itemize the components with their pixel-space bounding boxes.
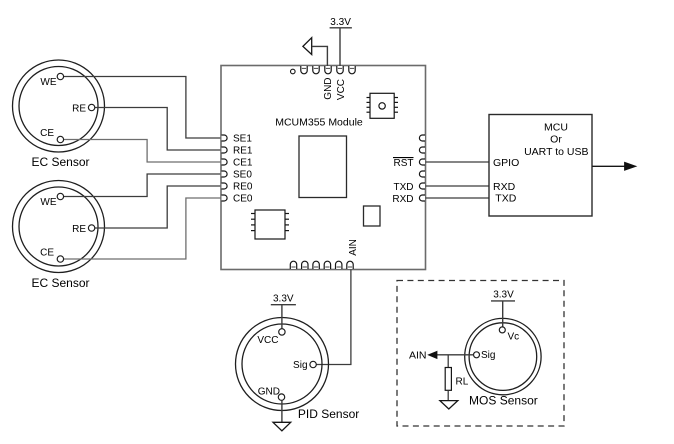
pin SE1 — [222, 135, 228, 141]
svg-text:EC Sensor: EC Sensor — [31, 155, 89, 169]
wire PID GND to ground — [281, 400, 283, 422]
svg-text:RE: RE — [72, 224, 86, 235]
PID sensor body — [236, 318, 329, 411]
svg-text:CE: CE — [40, 248, 54, 259]
bottom header pin 4 — [324, 261, 330, 269]
top header pin GND — [325, 66, 331, 74]
bottom header pin 2 — [302, 261, 308, 269]
svg-text:RXD: RXD — [392, 194, 413, 205]
wire MCU output — [592, 165, 626, 167]
arrow AIN — [429, 351, 437, 358]
top header pin 5 — [349, 66, 355, 74]
EC2 pin CE — [57, 256, 63, 262]
svg-text:Vc: Vc — [508, 332, 520, 343]
top header pin 1 — [301, 66, 307, 74]
pin-1 indicator dot — [291, 69, 296, 74]
IC chip with dot (top right) — [367, 93, 399, 118]
module MCUM355 outline — [221, 66, 426, 270]
pin RE0 — [222, 183, 228, 189]
MOS sensor body — [465, 318, 541, 394]
svg-text:CE0: CE0 — [233, 194, 253, 205]
pin right 2 arc — [419, 147, 425, 153]
wire TXD to RXD — [426, 185, 490, 187]
wire 3.3V to PID VCC — [281, 305, 283, 329]
MCU block — [489, 115, 592, 217]
3.3V rail bar MOS — [491, 300, 515, 302]
wire EC2 RE to RE0 — [95, 186, 224, 228]
wire AIN to PID Sig — [316, 270, 351, 365]
pin TXD arc — [419, 183, 425, 189]
bottom header pin 5 — [336, 261, 342, 269]
svg-text:VCC: VCC — [336, 79, 347, 100]
wire EC1 CE to CE1 — [64, 140, 224, 163]
ground flag arrow — [303, 38, 312, 55]
svg-text:RE: RE — [72, 103, 86, 114]
wire RXD to TXD — [426, 197, 490, 199]
IC chip bottom left — [251, 210, 289, 239]
pin CE1 — [222, 159, 228, 165]
EC sensor 1 body — [13, 60, 105, 152]
svg-text:AIN: AIN — [409, 350, 427, 362]
svg-text:CE: CE — [40, 128, 54, 139]
PID pin GND — [278, 394, 284, 400]
wire GND pin to power flag — [312, 46, 327, 66]
svg-text:WE: WE — [40, 197, 56, 208]
PID pin Sig — [310, 361, 316, 367]
PID pin VCC — [279, 329, 285, 335]
svg-text:Sig: Sig — [481, 350, 495, 361]
3.3V rail bar top — [330, 27, 352, 29]
EC1 pin WE — [57, 73, 63, 79]
svg-text:RXD: RXD — [493, 181, 516, 193]
wire EC2 CE to CE0 — [64, 198, 224, 259]
EC2 pin WE — [57, 193, 63, 199]
svg-text:WE: WE — [40, 77, 56, 88]
RST overline — [393, 157, 414, 159]
svg-text:MOS Sensor: MOS Sensor — [469, 393, 538, 407]
ground symbol MOS — [440, 401, 458, 409]
bottom header pin 3 — [313, 261, 319, 269]
svg-text:3.3V: 3.3V — [330, 17, 351, 28]
pin SE0 — [222, 171, 228, 177]
small component rectangle — [364, 206, 381, 226]
svg-text:Or: Or — [550, 134, 562, 146]
pin RE1 — [222, 147, 228, 153]
MOS pin Vc — [499, 327, 505, 333]
EC1 pin CE — [57, 136, 63, 142]
pin right 4 arc — [419, 171, 425, 177]
svg-text:EC Sensor: EC Sensor — [31, 276, 89, 290]
bottom header pin 1 — [290, 261, 296, 269]
svg-text:GND: GND — [323, 77, 334, 99]
dashed enclosure MOS — [397, 281, 564, 427]
svg-text:UART to USB: UART to USB — [524, 146, 588, 158]
wire Sig branch to RL — [447, 355, 449, 368]
EC sensor 2 body — [13, 181, 105, 273]
svg-text:SE0: SE0 — [233, 170, 252, 181]
bottom header pin AIN — [347, 261, 353, 269]
top header pin 2 — [313, 66, 319, 74]
MOS pin Sig — [474, 352, 480, 358]
svg-text:Sig: Sig — [293, 360, 307, 371]
EC2 pin RE — [88, 225, 94, 231]
wire RL to ground — [447, 390, 449, 400]
ground symbol PID — [273, 422, 291, 431]
svg-text:RL: RL — [456, 376, 469, 387]
svg-text:3.3V: 3.3V — [273, 294, 294, 305]
arrow MCU output — [625, 162, 636, 170]
wire Sig to AIN arrow — [437, 354, 474, 356]
svg-text:TXD: TXD — [495, 192, 516, 204]
svg-text:GPIO: GPIO — [493, 157, 519, 169]
svg-text:PID Sensor: PID Sensor — [298, 407, 359, 421]
main chip rectangle — [299, 136, 347, 198]
pin RST arc — [419, 159, 425, 165]
EC1 pin RE — [88, 104, 94, 110]
top header pin VCC — [337, 66, 343, 74]
svg-text:GND: GND — [258, 387, 280, 398]
pin right 1 arc — [419, 135, 425, 141]
svg-text:AIN: AIN — [348, 239, 359, 256]
wire 3.3V to Vc — [502, 301, 504, 327]
svg-text:MCU: MCU — [544, 121, 568, 133]
wire EC1 WE to SE1 — [64, 77, 224, 139]
svg-text:TXD: TXD — [394, 182, 414, 193]
wire EC1 RE to RE1 — [95, 108, 224, 151]
svg-text:VCC: VCC — [257, 335, 278, 346]
wire RST to GPIO — [426, 161, 490, 163]
3.3V rail bar PID — [271, 304, 296, 306]
svg-text:CE1: CE1 — [233, 158, 253, 169]
pin RXD arc — [419, 195, 425, 201]
svg-text:RE1: RE1 — [233, 146, 253, 157]
wire EC2 WE to SE0 — [64, 174, 224, 197]
svg-text:SE1: SE1 — [233, 134, 252, 145]
svg-text:3.3V: 3.3V — [493, 289, 514, 300]
wire 3.3V to VCC pin — [339, 28, 341, 66]
svg-text:MCUM355 Module: MCUM355 Module — [275, 116, 363, 128]
svg-text:RE0: RE0 — [233, 182, 253, 193]
resistor RL — [445, 368, 451, 391]
svg-text:RST: RST — [394, 158, 414, 169]
pin CE0 — [222, 195, 228, 201]
